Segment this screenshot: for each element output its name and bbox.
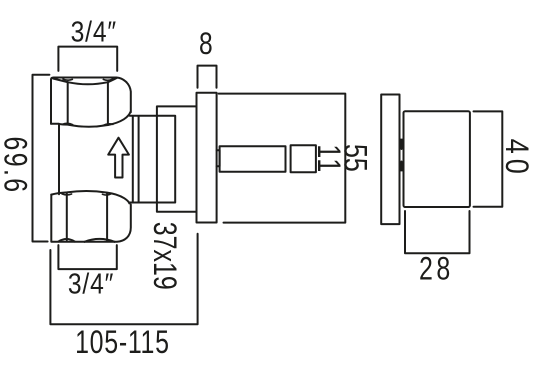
svg-text:69.6: 69.6 xyxy=(0,137,32,195)
svg-text:3/4″: 3/4″ xyxy=(71,16,117,48)
svg-text:28: 28 xyxy=(419,252,454,288)
svg-text:8: 8 xyxy=(199,25,213,61)
svg-text:3/4″: 3/4″ xyxy=(68,268,114,300)
svg-text:55: 55 xyxy=(337,144,373,172)
svg-text:40: 40 xyxy=(498,139,533,179)
svg-text:37x19: 37x19 xyxy=(146,222,182,290)
svg-text:105-115: 105-115 xyxy=(75,325,170,361)
